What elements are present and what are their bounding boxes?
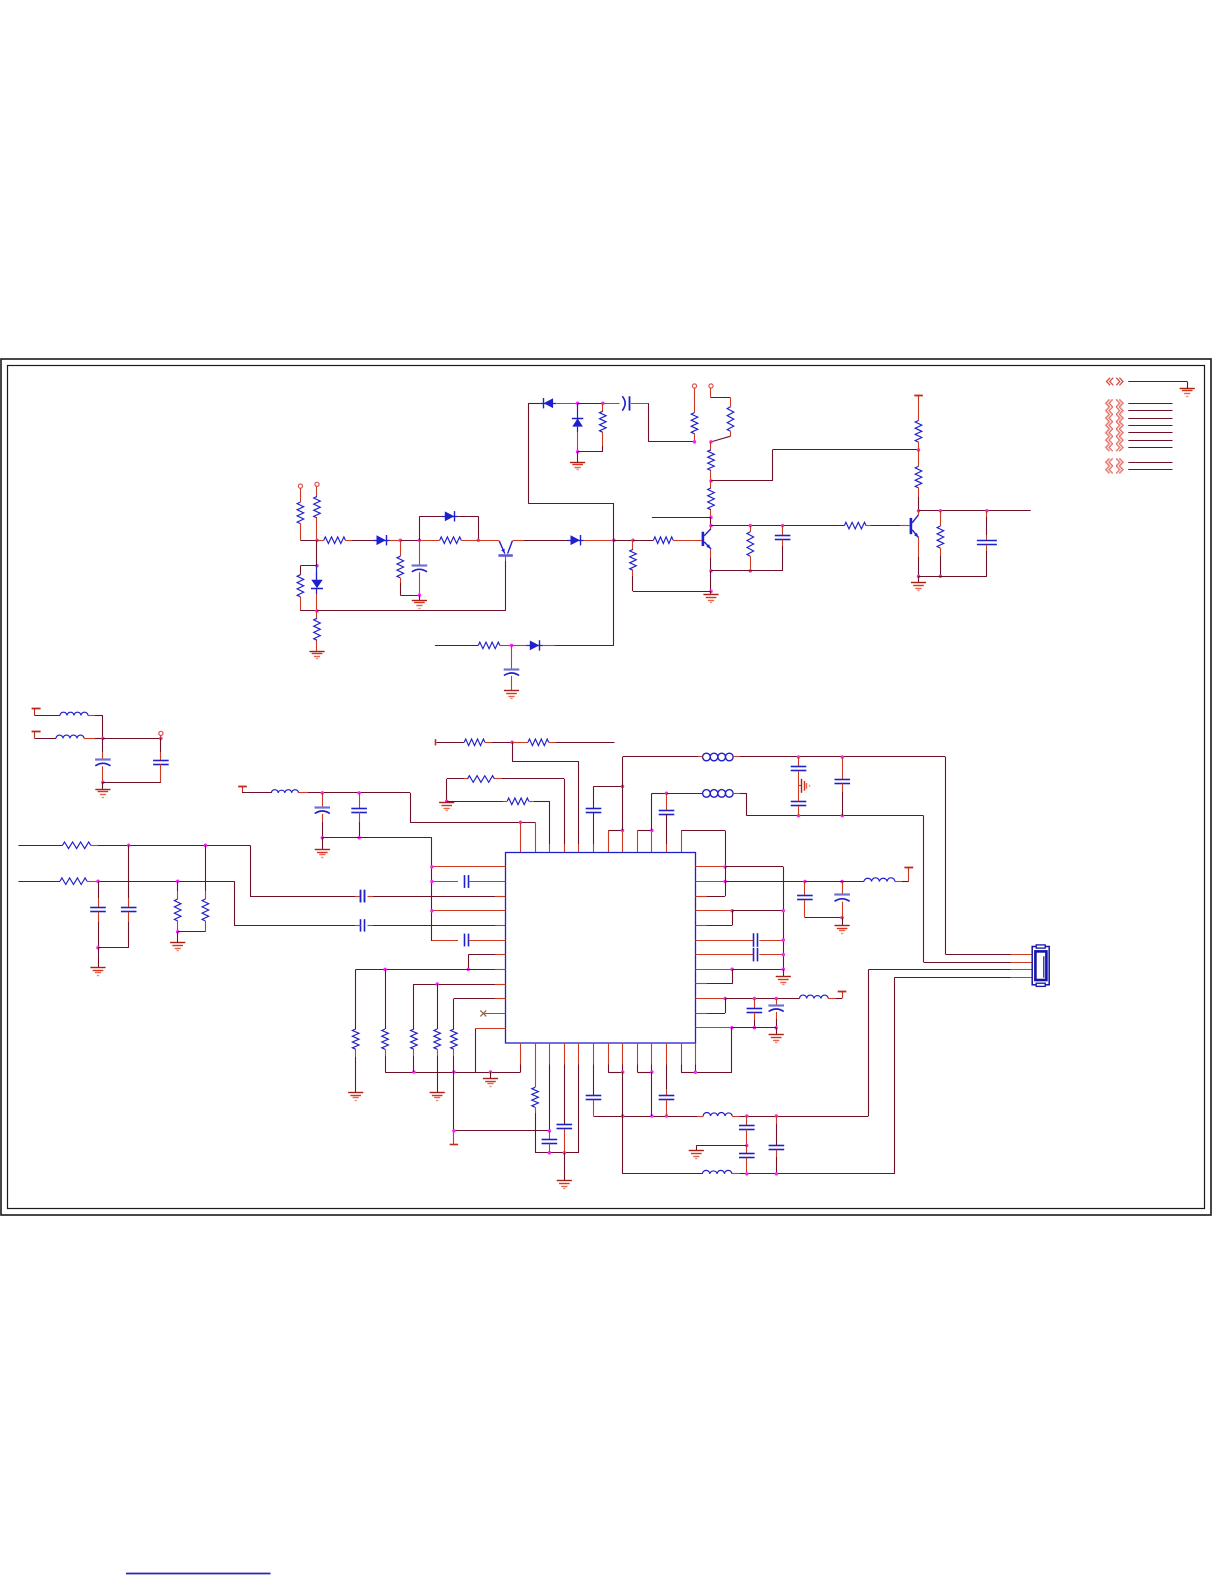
node — [96, 946, 100, 950]
node — [510, 644, 514, 648]
capacitor C22 — [754, 948, 758, 962]
wire rail L10 — [454, 998, 506, 1000]
wire — [842, 918, 844, 926]
pin row R4 — [695, 910, 732, 912]
node — [730, 909, 734, 913]
node — [917, 509, 921, 513]
node — [753, 997, 757, 1001]
wire — [678, 540, 702, 542]
wire rail — [535, 1152, 579, 1154]
power T5 — [904, 868, 913, 871]
wire — [250, 845, 358, 896]
net line row8 — [1128, 462, 1172, 464]
wire — [98, 845, 250, 847]
node — [576, 450, 580, 454]
node — [467, 968, 471, 972]
node — [917, 448, 921, 452]
node — [775, 1114, 779, 1118]
node — [775, 1172, 779, 1176]
wire — [512, 645, 527, 647]
node — [430, 865, 434, 869]
wire — [234, 881, 358, 925]
power T6 — [838, 992, 847, 995]
capacitor C7 — [153, 738, 169, 782]
wire — [594, 786, 623, 788]
capacitor C32 — [739, 1116, 755, 1146]
wire — [603, 403, 620, 405]
ground — [776, 977, 791, 985]
net line row3 — [1128, 418, 1172, 420]
wire stub — [652, 517, 711, 519]
ground — [504, 691, 519, 699]
resistor R24 — [202, 845, 209, 932]
node — [315, 609, 319, 613]
wire rail L9 — [414, 984, 506, 986]
wire — [918, 576, 920, 583]
wire — [308, 793, 411, 823]
inductor L6 — [864, 878, 902, 882]
wire — [711, 388, 731, 407]
node — [612, 538, 616, 542]
capacitor C26 — [361, 890, 365, 903]
node — [749, 569, 753, 573]
port glyph row1 — [1105, 399, 1123, 407]
wire — [316, 486, 318, 496]
inductor L7 — [800, 995, 837, 998]
pin row R2 — [695, 881, 725, 883]
node — [917, 575, 921, 579]
transistor Q3 — [910, 515, 919, 538]
wire — [578, 446, 603, 452]
capacitor C21 — [754, 933, 758, 947]
wire — [543, 645, 614, 647]
wire — [578, 403, 603, 405]
node — [519, 820, 523, 824]
wire — [614, 540, 633, 542]
node — [621, 785, 625, 789]
node — [548, 1129, 552, 1133]
wire — [95, 716, 103, 739]
wire — [355, 969, 357, 1029]
resistor R15 — [630, 540, 637, 591]
node — [841, 814, 845, 818]
wire — [694, 388, 696, 413]
wire — [759, 954, 783, 956]
port glyph row8 — [1105, 458, 1123, 466]
resistor R31 — [411, 984, 418, 1072]
node — [939, 509, 943, 513]
wire — [918, 511, 920, 515]
wire — [419, 540, 421, 566]
node — [315, 538, 319, 542]
capacitor C10 — [90, 881, 106, 948]
pin row L2 — [432, 881, 458, 883]
resistor R22 — [60, 878, 98, 885]
pin row R1 — [695, 866, 725, 868]
wire — [633, 540, 654, 542]
wire — [695, 911, 732, 926]
wire — [577, 452, 579, 462]
resistor R16 — [844, 522, 871, 529]
capacitor C27 — [465, 934, 469, 947]
port P3 — [692, 384, 696, 388]
wire — [902, 870, 909, 882]
pin row L4 — [432, 910, 506, 912]
wire — [868, 969, 1032, 971]
resistor R10 — [691, 413, 698, 442]
ground — [703, 595, 718, 603]
wire — [242, 792, 271, 794]
capacitor C3 — [775, 526, 791, 571]
node — [693, 440, 697, 444]
net line row2 — [1128, 410, 1172, 412]
wire — [419, 572, 421, 595]
wire — [783, 969, 785, 977]
wire — [177, 932, 179, 943]
ground — [1180, 389, 1195, 397]
inductor L9 — [702, 1170, 740, 1174]
power T2 — [32, 708, 41, 716]
wire — [505, 555, 507, 611]
resistor R9 — [600, 403, 607, 446]
wire — [490, 1072, 492, 1079]
node — [412, 1070, 416, 1074]
node — [383, 968, 387, 972]
pin — [520, 1043, 522, 1072]
capacitor C20 — [834, 882, 850, 918]
wire — [725, 998, 799, 1000]
capacitor C24 — [768, 999, 784, 1028]
node — [418, 593, 422, 597]
pin row R8 — [695, 969, 732, 971]
diode D3 — [567, 535, 584, 545]
node — [723, 997, 727, 1001]
capacitor C18 — [835, 757, 851, 816]
resistor R29 — [352, 1029, 359, 1093]
inductor L8 — [697, 1113, 740, 1117]
wire — [696, 1146, 747, 1151]
wire — [732, 969, 783, 971]
wire — [710, 526, 712, 529]
ground — [315, 850, 330, 858]
pin — [535, 822, 537, 852]
wire — [322, 838, 432, 942]
pin — [608, 830, 610, 852]
port glyph row9 — [1105, 466, 1123, 474]
capacitor C19 — [797, 882, 813, 918]
wire — [475, 1028, 477, 1072]
node — [621, 1070, 625, 1074]
pin — [637, 1043, 652, 1073]
wire — [355, 896, 505, 898]
node — [723, 865, 727, 869]
wire — [390, 540, 401, 542]
wire — [98, 881, 234, 883]
wire — [1128, 382, 1187, 389]
wire — [633, 591, 711, 593]
net line row9 — [1128, 469, 1172, 471]
wire — [919, 576, 987, 578]
power tick — [435, 739, 437, 745]
node — [709, 524, 713, 528]
node — [665, 792, 669, 796]
capacitor C8 — [361, 890, 365, 902]
wire — [871, 525, 910, 527]
wire — [711, 436, 731, 442]
node — [774, 997, 778, 1001]
wire — [300, 488, 302, 502]
ground — [483, 1079, 498, 1087]
resistor R3 — [317, 537, 352, 544]
capacitor C25 — [465, 875, 469, 888]
wire — [945, 757, 947, 954]
node — [749, 524, 753, 528]
wire — [918, 538, 920, 577]
resistor R18 — [915, 450, 922, 511]
capacitor C29 — [557, 1043, 573, 1153]
node — [745, 1172, 749, 1176]
diode D7 — [526, 640, 543, 650]
pin row L1 — [432, 866, 506, 868]
node — [650, 1114, 654, 1118]
node — [510, 741, 514, 745]
node — [985, 509, 989, 513]
node — [745, 1144, 749, 1148]
inductor L1 — [60, 712, 95, 715]
wire rail — [385, 1072, 520, 1074]
wire — [894, 977, 896, 1174]
port glyph row5 — [1105, 429, 1123, 437]
wire — [923, 816, 925, 962]
ground — [439, 803, 454, 811]
node — [159, 737, 163, 741]
ground — [95, 790, 110, 798]
wire — [608, 830, 622, 832]
ground — [769, 1035, 784, 1043]
resistor R5 — [419, 537, 478, 544]
port glyph — [1107, 378, 1124, 386]
resistor R19 — [937, 511, 944, 577]
wire — [322, 838, 324, 850]
node — [694, 1071, 698, 1075]
capacitor C23 — [747, 999, 763, 1028]
wire — [317, 610, 506, 612]
pin row R12 — [695, 1027, 732, 1029]
capacitor C16 — [791, 757, 807, 771]
wire rail1 — [18, 845, 62, 847]
node — [782, 909, 786, 913]
pin — [695, 1043, 697, 1073]
capacitor C33 — [739, 1146, 755, 1174]
node — [452, 1129, 456, 1133]
node — [840, 916, 844, 920]
power tick stub — [450, 1131, 458, 1145]
wire — [564, 1153, 566, 1181]
node — [321, 836, 325, 840]
wire — [725, 881, 805, 883]
diode D1 — [373, 535, 390, 545]
wire — [649, 403, 695, 442]
resistor R4 — [397, 540, 404, 583]
pin — [681, 1043, 695, 1073]
port P2 — [315, 482, 319, 486]
wire — [458, 516, 479, 540]
resistor R21 — [63, 842, 99, 849]
wire — [584, 540, 614, 542]
capacitor C1 — [412, 566, 428, 572]
diode D6 zener — [572, 403, 583, 452]
diode D5 — [540, 398, 557, 408]
pin — [578, 1043, 580, 1153]
resistor R13 — [708, 481, 715, 518]
capacitor C31 — [659, 1043, 675, 1116]
connector J1 — [1032, 945, 1049, 987]
wire — [868, 970, 870, 1116]
wire — [446, 779, 448, 801]
node — [709, 479, 713, 483]
wire — [651, 1072, 653, 1116]
node — [489, 1070, 493, 1074]
pin — [637, 830, 639, 852]
wire — [98, 947, 129, 949]
node — [576, 401, 580, 405]
node — [176, 930, 180, 934]
node — [127, 844, 131, 848]
wire — [710, 571, 712, 591]
wire — [918, 400, 920, 421]
resistor R30 — [382, 969, 389, 1072]
wire — [300, 540, 317, 542]
wire — [622, 757, 624, 830]
resistor R8 — [314, 611, 321, 651]
net line row6 — [1128, 440, 1172, 442]
wire — [622, 1072, 624, 1174]
capacitor C6 — [95, 738, 111, 782]
wire — [695, 999, 725, 1014]
wire — [776, 1028, 778, 1035]
resistor R17 — [915, 421, 922, 450]
node — [430, 909, 434, 913]
resistor R12 — [708, 442, 715, 481]
wire rail A — [594, 1116, 704, 1117]
pin row L6 — [432, 940, 458, 942]
wire — [710, 591, 712, 595]
node — [782, 938, 786, 942]
node — [723, 880, 727, 884]
capacitor C2 — [622, 396, 629, 410]
wire — [528, 403, 540, 405]
node — [782, 967, 786, 971]
ground — [557, 1181, 572, 1189]
capacitor C17 — [791, 771, 807, 816]
capacitor C13 — [351, 793, 367, 838]
pin row L12 — [476, 1028, 506, 1030]
ground — [348, 1093, 363, 1101]
wire — [556, 742, 615, 744]
node — [621, 1114, 625, 1118]
wire — [710, 517, 712, 525]
wire — [557, 403, 578, 405]
resistor R14 — [747, 526, 754, 571]
node — [939, 575, 943, 579]
wire — [513, 540, 567, 542]
wire — [631, 403, 649, 405]
node — [204, 844, 208, 848]
ground — [309, 652, 324, 659]
ground — [570, 463, 585, 470]
port P4 — [709, 384, 713, 388]
pin row R6 — [695, 940, 753, 942]
wire — [725, 867, 783, 970]
wire rail — [919, 510, 1031, 512]
wire — [492, 742, 512, 744]
pin — [681, 831, 683, 852]
wire — [740, 756, 946, 758]
wire — [747, 815, 924, 817]
capacitor C9 — [361, 919, 365, 931]
transistor Q2 — [702, 529, 711, 549]
wire — [478, 540, 499, 542]
node — [730, 967, 734, 971]
node — [418, 538, 422, 542]
net line row7 — [1128, 447, 1172, 449]
wire — [836, 992, 843, 999]
node — [315, 564, 319, 568]
resistor R6 — [654, 537, 679, 544]
inductor L5 — [667, 790, 741, 798]
resistor R26 — [512, 739, 556, 746]
wire — [805, 917, 842, 919]
port glyph row3 — [1105, 414, 1123, 422]
wire rail — [711, 525, 844, 527]
wire — [534, 801, 550, 852]
wire — [946, 954, 1033, 956]
diode D2 — [441, 511, 458, 521]
wire — [681, 831, 725, 867]
footer underline — [126, 1573, 271, 1575]
capacitor C4 — [977, 511, 997, 577]
wire — [352, 540, 373, 542]
node — [745, 1114, 749, 1118]
node — [781, 524, 785, 528]
wire — [35, 715, 61, 717]
resistor R1 — [297, 502, 304, 540]
pin — [622, 1043, 624, 1072]
wire — [711, 570, 783, 572]
wire — [759, 940, 783, 942]
ground — [170, 943, 185, 951]
node — [774, 1026, 778, 1030]
wire — [300, 540, 317, 575]
node — [430, 880, 434, 884]
net line row4 — [1128, 425, 1172, 427]
capacitor C15 — [659, 793, 675, 852]
wire — [410, 822, 535, 824]
resistor R2 — [314, 497, 321, 541]
node — [96, 879, 100, 883]
capacitor C28 — [542, 1131, 558, 1153]
node — [782, 953, 786, 957]
wire — [740, 793, 747, 815]
resistor R27 — [447, 776, 502, 783]
wire — [468, 955, 470, 970]
inductor L4 — [698, 753, 740, 761]
wire — [740, 1173, 895, 1175]
resistor R33 — [451, 999, 458, 1072]
wire — [710, 549, 712, 571]
resistor R32 — [434, 984, 441, 1093]
node — [753, 1026, 757, 1030]
